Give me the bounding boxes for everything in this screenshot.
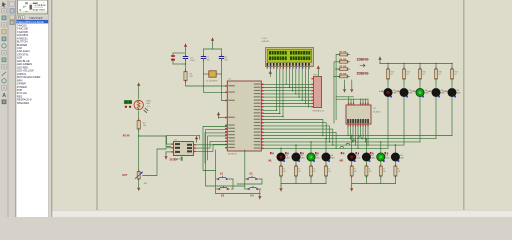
wire B ground rail [352,183,396,185]
wire led B2 down [365,161,367,166]
led D3 top [416,88,424,96]
capacitor C1 [201,54,205,60]
svg-text:DEVICES: DEVICES [30,16,43,20]
svg-text:LED: LED [316,158,320,160]
pin marks A3 [300,152,302,154]
power U3 [195,136,198,142]
wire R group left v3 [337,68,340,70]
svg-text:11.0592MHz: 11.0592MHz [206,81,218,83]
wire C3 to R1 [173,61,186,71]
svg-text:DZT: DZT [123,174,128,177]
wire top col 3 mid [435,81,437,88]
power +5V reset [184,44,187,53]
wire cluster col 366.4 up [365,139,367,153]
wire cluster col 351.7 up [351,136,353,153]
wire XTAL2 [222,74,228,101]
led D1 top [384,88,392,96]
wire cluster col 395.4 up [394,145,396,153]
resistor R6 [338,75,340,77]
crystal X1 [204,61,222,78]
svg-text:74LS164: 74LS164 [373,112,382,114]
wire led B4 down [394,161,396,166]
wire led B3 down [380,161,382,166]
lcd LCD1 frame [266,48,314,67]
wire P0.0 [264,83,314,85]
power EA pin [217,112,228,118]
wire A ground rail [281,183,326,185]
wire led A1 down [280,161,282,166]
capacitor C2 [219,54,223,60]
pin marks A1 [270,152,272,154]
wire top col 4 mid [451,81,453,88]
svg-text:RESPACK-8: RESPACK-8 [313,110,325,113]
wire P1.0 [203,127,227,171]
wire top col 3 up [435,64,437,70]
svg-text:LDR: LDR [146,103,151,105]
ground R group 2 [350,80,353,92]
wire button bottom rail [216,193,260,195]
pin marks B1 [341,152,343,154]
power lcd vdd [269,69,272,76]
mcu left pins [225,85,235,148]
power xtal top [211,38,214,49]
respack pins [311,78,313,107]
led A2 [292,153,300,161]
chip U3 ADC0832 body [174,142,194,156]
wire XTAL1 [204,74,228,92]
resistor R15 [419,67,421,69]
wire top col 0 mid [387,81,389,88]
led D2 top [400,88,408,96]
resistor A 1 [280,164,282,166]
led A1 [277,153,285,161]
svg-text:7SEG-MPX2-CA-BLUE: 7SEG-MPX2-CA-BLUE [17,20,44,24]
wire top col 2 mid [419,81,421,88]
wire P2.0 row [264,109,277,111]
resistor B 1 [351,164,353,166]
resistor R1 [184,70,187,83]
wire R group left v4 [334,75,340,77]
svg-text:R3 10K: R3 10K [340,52,347,54]
wire P2 bus 4 [264,132,337,148]
wire cluster col 296 up [295,145,297,153]
wire top col 0 up [387,64,389,70]
wire rail r2 [264,138,437,140]
pin marks B4 [384,152,386,154]
wire U3 clk [196,141,228,148]
resistor R17 [451,67,453,69]
wire cluster col 281 up [280,148,282,153]
wire top col 2 down [419,97,421,142]
wire pot wiper [143,148,172,176]
lcd screen [267,49,311,62]
svg-text:LED: LED [331,158,335,160]
svg-text:LED: LED [457,92,461,94]
wire lcd D0 [285,69,287,84]
lcd text row1 [269,51,310,55]
led A3 [307,153,315,161]
resistor B 3 [380,164,382,166]
svg-text:LED: LED [386,158,390,160]
svg-text:MR: MR [340,160,344,163]
resistor R3 [338,54,340,56]
svg-text:L: L [22,16,24,20]
wire rail r5 [264,147,389,149]
resistor B 4 [394,164,396,166]
resistor R2 [137,119,140,132]
svg-text:R13: R13 [390,72,393,74]
svg-text:L1R: L1R [379,91,384,93]
wire lcd D1 [288,69,290,88]
svg-text:SPEAKER: SPEAKER [17,101,29,105]
led D4 top [432,88,440,96]
wire lcd RW [279,69,281,114]
wire cluster col 380.8 up [380,142,382,153]
svg-text:L5R: L5R [443,91,448,93]
svg-text:SEGDP: SEGDP [170,159,179,162]
button K4 [247,186,259,190]
resistor A 2 [295,164,297,166]
wire A3 to gnd rail [310,176,312,184]
pin marks B3 [370,152,372,154]
wire B2 to gnd rail [365,176,367,184]
wire P0.1 [264,87,314,89]
wire A4 to gnd rail [325,176,327,184]
wire led A2 down [295,161,297,166]
wire LDR to R2 [138,111,140,120]
wire P0.4 [264,96,314,98]
power LDR [137,83,140,99]
wire top col 0 down [387,97,389,149]
diode D1 [171,55,175,64]
wire P2 bus 2 [264,126,330,142]
ground B [350,184,353,192]
wire button right2 [237,179,262,184]
ground buttons [258,194,261,200]
wire P2.2 row [264,116,284,118]
resistor B 2 [365,164,367,166]
svg-text:2DENG: 2DENG [357,71,369,75]
wire P0.6 [264,103,314,105]
svg-text:A: A [2,93,6,99]
wire U2 vcc rows [336,96,353,98]
wire P0.5 [264,99,314,101]
svg-text:LED: LED [400,158,404,160]
wire P2 bus 0 [264,120,323,136]
wire R1 to RST [186,81,228,87]
wire P1.2 [205,133,227,163]
svg-text:R15: R15 [422,72,425,74]
ground A [279,184,282,192]
svg-text:L2R: L2R [395,91,400,93]
svg-text:R5 10K: R5 10K [340,66,347,68]
wire reset branch [173,53,186,55]
wire top col 1 mid [403,81,405,88]
led B1 [348,153,356,161]
wire rail r4 [264,144,405,146]
svg-text:R4 10K: R4 10K [340,58,347,61]
light control widget [124,100,132,108]
wire U3 cs loop [167,135,200,144]
wire P1.1 [206,130,245,186]
wire divider node [138,129,139,171]
svg-text:P: P [18,16,20,20]
wire B1 to gnd rail [351,176,353,184]
wire lcd D2 [292,69,294,91]
svg-text:ML: ML [269,160,273,163]
wire top col 1 up [403,64,405,70]
U2 top pins [348,99,369,105]
svg-text:LED: LED [356,158,360,160]
wire U3 do [196,144,228,146]
wire top col 3 down [435,97,437,139]
svg-text:AT89C51: AT89C51 [228,153,238,156]
ground U3 [164,152,171,159]
wire top col 1 down [403,97,405,146]
wire P2 bus 3 [264,129,333,145]
wire button right1 [229,179,233,189]
wire cluster col 326 up [325,139,327,153]
svg-text:LED: LED [286,158,290,160]
U2 fan wires [347,126,368,149]
wire rail r3 [264,141,421,143]
lcd text row2 [269,56,310,60]
button K3 [218,186,230,190]
resistor A 4 [325,164,327,166]
svg-text:LCD1: LCD1 [262,38,268,40]
wire top col 4 down [451,97,453,136]
potentiometer RV1 [135,170,142,182]
button K1 [217,176,229,180]
resistor R14 [403,67,405,69]
pin marks A2 [285,152,287,154]
led B3 [377,153,385,161]
ground pot [137,181,140,191]
wire R group left v2 [334,62,338,123]
wire P1.3 [208,136,228,160]
button K2 [246,176,258,180]
wire P0.2 [264,90,314,92]
svg-text:LDR1: LDR1 [146,101,152,103]
lcd pins [267,63,310,69]
led A4 [322,153,330,161]
capacitor C3 [183,54,187,60]
wire lcd D4 [298,69,300,97]
mcu U1 AT89C51 body [227,81,261,151]
wire lcd D7 [308,69,310,107]
wire B3 to gnd rail [380,176,382,184]
svg-text:LED: LED [301,158,305,160]
svg-text:L3R: L3R [411,91,416,93]
U2 bottom pins [347,119,369,126]
respack RP1 [313,77,321,108]
wire lcd RS [276,69,278,110]
wire P2 bus 1 [264,123,327,139]
power RP1 [317,66,320,77]
wire top col 4 up [451,64,453,70]
wire rail r1 [264,135,453,137]
wire top col 2 up [419,64,421,70]
wire P0.3 [264,93,314,95]
resistor R16 [435,67,437,69]
LDR LDR1 [134,100,148,112]
resistor A 3 [310,164,312,166]
pin marks A4 [315,152,317,154]
svg-text:10K: 10K [144,183,148,185]
svg-text:L4R: L4R [427,90,432,93]
wire lcd E [282,69,284,117]
wire top led rail [380,63,452,65]
wire lcd D6 [304,69,306,104]
svg-text:10uF: 10uF [190,60,195,62]
led B4 [391,153,399,161]
arrow mark [360,64,365,67]
pin marks B2 [355,152,357,154]
resistor R4 [338,61,340,63]
mcu right pins [254,84,264,150]
wire A1 to gnd rail [280,176,282,184]
wire P2.1 row [264,113,280,115]
wire U3 di [196,145,228,152]
svg-text:R6 10K: R6 10K [340,73,347,75]
wire button col mid [244,150,246,189]
wire led A4 down [325,161,327,166]
resistor R13 [387,67,389,69]
svg-text:R16: R16 [438,72,441,74]
svg-text:LM016L: LM016L [262,41,271,43]
ground R group 1 [343,80,346,92]
resistor R5 [338,68,340,70]
wire R group left v1 [336,55,337,120]
wire lcd D3 [295,69,297,94]
wire P0.7 [264,106,314,108]
wire A2 to gnd rail [295,176,297,184]
power top led rail [378,57,381,64]
led D5 top [448,88,456,96]
wire cluster col 311 up [310,142,312,153]
svg-text:R17: R17 [454,72,457,74]
wire hop arcs [340,137,362,149]
svg-text:R14: R14 [406,72,409,74]
chip U2 74LS164 body [346,105,371,124]
wire lcd D5 [301,69,303,100]
wire xtal split [204,49,222,54]
svg-text:LED: LED [371,158,375,160]
wire to ADC CH0 [139,136,171,147]
wire B4 to gnd rail [394,176,396,184]
svg-text:AD-IN: AD-IN [123,135,130,138]
wire button col left [215,150,217,194]
led B2 [362,153,370,161]
svg-text:1DENG: 1DENG [357,57,369,61]
wire led B1 down [351,161,353,166]
wire led A3 down [310,161,312,166]
